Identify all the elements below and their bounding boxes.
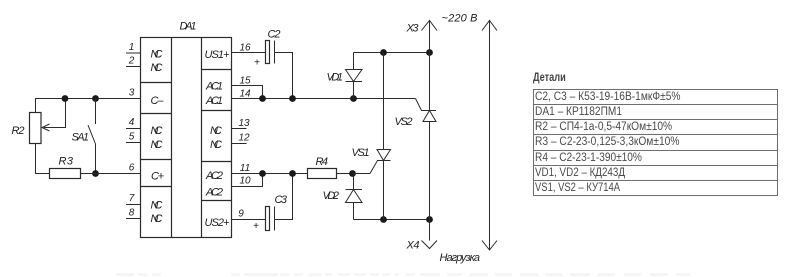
wire R3 to R2 bottom <box>36 144 50 174</box>
node G junction VS1 top <box>380 49 387 56</box>
wire pin16 to C2 <box>232 52 266 54</box>
node F junction VD1 <box>350 95 357 102</box>
wire pin11 AC2 line to R4 <box>232 173 308 175</box>
node B junction SA1/pin3 wire <box>92 95 99 102</box>
node A junction wiper/pin3 wire <box>62 95 69 102</box>
pin 8 stub <box>126 208 141 219</box>
svg-text:4: 4 <box>129 117 135 128</box>
svg-text:NC: NC <box>210 125 222 137</box>
load dimension arrow <box>482 21 497 251</box>
wire pin15 down to AC1 line <box>232 86 263 99</box>
pin 1 stub <box>126 42 141 53</box>
capacitor C3 polarized <box>266 207 275 231</box>
svg-text:NC: NC <box>151 125 163 137</box>
pin 7 stub <box>126 193 141 205</box>
node K junction R4/VD2/VS1 gate <box>349 170 356 177</box>
svg-text:5: 5 <box>129 132 135 143</box>
thyristor VS1 <box>353 53 391 220</box>
svg-text:US1+: US1+ <box>205 49 231 61</box>
node H junction X3 rail <box>426 49 433 56</box>
svg-text:US2+: US2+ <box>205 217 231 229</box>
node M junction X4 rail <box>426 216 433 223</box>
wire R4 to node K <box>337 173 353 175</box>
resistor R4 <box>308 169 337 179</box>
svg-text:VS1: VS1 <box>352 147 370 159</box>
parts list table <box>533 72 566 84</box>
svg-text:16: 16 <box>239 43 251 54</box>
svg-text:1: 1 <box>129 42 135 53</box>
svg-text:12: 12 <box>238 133 250 144</box>
IC cell labels left column <box>151 49 165 226</box>
wire pin14 AC1 line <box>232 98 416 100</box>
wire C3 up to AC2 line <box>275 174 293 220</box>
connector X4 arrow <box>422 241 438 249</box>
svg-text:NC: NC <box>151 62 163 74</box>
svg-text:C3: C3 <box>275 194 288 206</box>
svg-text:SA1: SA1 <box>72 132 90 144</box>
pin 12 stub <box>232 133 250 144</box>
svg-text:11: 11 <box>240 163 250 174</box>
thyristor VS2 <box>416 31 437 241</box>
svg-text:NC: NC <box>151 213 163 225</box>
svg-text:6: 6 <box>129 163 135 174</box>
svg-text:C+: C+ <box>151 171 165 183</box>
svg-text:VS2: VS2 <box>395 116 413 128</box>
switch SA1 <box>88 99 96 174</box>
IC DA1 body <box>141 38 232 238</box>
connector X3 arrow <box>422 21 438 31</box>
svg-text:NC: NC <box>151 139 163 151</box>
svg-text:7: 7 <box>129 193 135 204</box>
wire pin10 up to AC2 line <box>232 174 263 187</box>
svg-text:13: 13 <box>238 118 250 129</box>
faint cropped caption remnants at bottom edge <box>116 273 690 275</box>
svg-text:2: 2 <box>128 56 135 67</box>
wire pin6 to R3 <box>81 173 141 175</box>
resistor R3 <box>50 169 81 179</box>
svg-text:NC: NC <box>151 200 163 212</box>
diode VD2 <box>346 174 363 220</box>
svg-text:AC1: AC1 <box>205 81 223 93</box>
svg-text:VD1: VD1 <box>327 72 344 84</box>
svg-text:VD2: VD2 <box>323 190 340 202</box>
pin 2 stub <box>126 56 141 67</box>
pin 4 stub <box>126 117 141 129</box>
svg-text:Нагрузка: Нагрузка <box>440 252 481 264</box>
svg-text:+: + <box>254 58 260 69</box>
wire C2 down to AC1 line <box>275 53 293 99</box>
wire pin9 to C3 <box>232 219 266 221</box>
svg-text:3: 3 <box>129 88 135 99</box>
svg-text:X3: X3 <box>406 23 420 35</box>
node C junction SA1/R3/pin6 <box>92 170 99 177</box>
pin 13 stub <box>232 118 250 129</box>
svg-text:X4: X4 <box>406 240 420 252</box>
wire bottom rail <box>354 219 430 221</box>
svg-text:NC: NC <box>151 49 163 61</box>
wire pin3 to R2/SA1 <box>36 99 141 113</box>
svg-text:R2: R2 <box>12 125 25 137</box>
svg-text:+: + <box>253 221 259 232</box>
node E junction C2 drop <box>289 95 296 102</box>
node L junction VS1 bottom <box>380 216 387 223</box>
pin 5 stub <box>126 132 141 143</box>
svg-text:8: 8 <box>129 208 135 219</box>
svg-text:R3: R3 <box>59 156 74 168</box>
svg-text:9: 9 <box>238 209 244 220</box>
R2 wiper arrow <box>42 99 66 132</box>
svg-text:R4: R4 <box>316 156 329 168</box>
svg-text:14: 14 <box>239 89 251 100</box>
resistor R2 (potentiometer body) <box>30 113 42 144</box>
svg-text:15: 15 <box>239 76 251 87</box>
svg-text:10: 10 <box>239 176 251 187</box>
svg-text:AC2: AC2 <box>205 187 223 199</box>
svg-text:C2: C2 <box>268 29 281 41</box>
svg-text:NC: NC <box>210 139 222 151</box>
svg-text:AC1: AC1 <box>205 95 223 107</box>
svg-text:~220 В: ~220 В <box>442 13 478 25</box>
wire top rail <box>354 52 430 54</box>
capacitor C2 polarized <box>266 41 275 64</box>
svg-text:AC2: AC2 <box>205 170 223 182</box>
diode VD1 <box>346 53 363 99</box>
svg-text:C–: C– <box>151 95 165 107</box>
IC cell labels right column <box>205 49 231 229</box>
node J junction C3 rise <box>289 170 296 177</box>
node I junction pin10 rise <box>259 170 266 177</box>
svg-text:DA1: DA1 <box>180 21 197 33</box>
node D junction pin15 drop <box>259 95 266 102</box>
